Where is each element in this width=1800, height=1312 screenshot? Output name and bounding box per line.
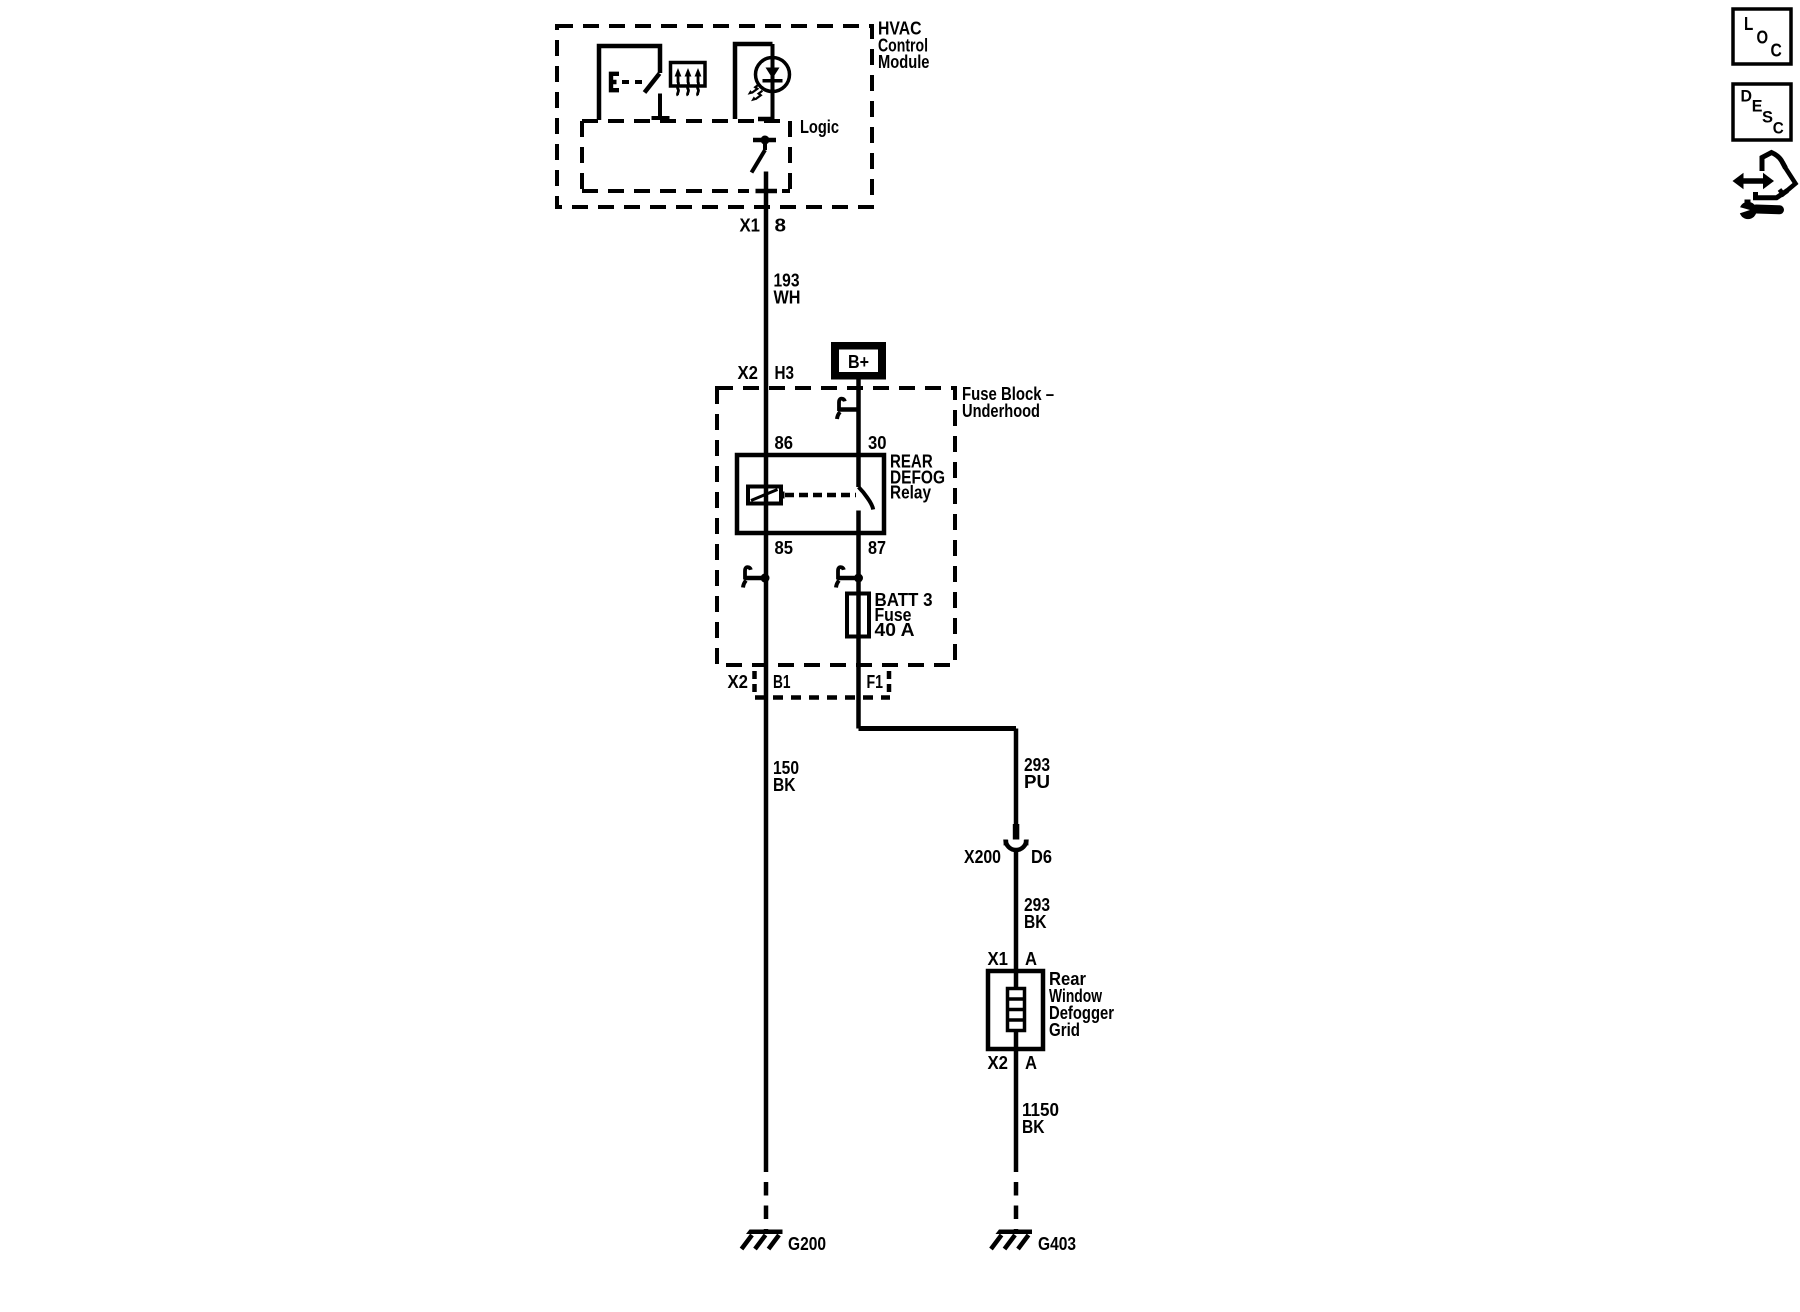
LED circle bbox=[756, 58, 790, 92]
ground G403 bbox=[991, 1230, 1032, 1250]
svg-text:O: O bbox=[1757, 28, 1769, 48]
svg-text:H3: H3 bbox=[775, 362, 795, 383]
svg-text:Grid: Grid bbox=[1049, 1019, 1080, 1040]
svg-text:87: 87 bbox=[868, 537, 886, 558]
defogger grid indicator icon box bbox=[671, 63, 706, 87]
svg-text:B1: B1 bbox=[773, 671, 791, 692]
svg-text:40 A: 40 A bbox=[875, 619, 915, 640]
LOC letters bbox=[1744, 14, 1782, 61]
svg-text:Logic: Logic bbox=[800, 116, 839, 137]
svg-text:C: C bbox=[1771, 41, 1782, 61]
svg-text:86: 86 bbox=[775, 432, 794, 453]
shortcut icon outline arrow tail bracket bbox=[1756, 191, 1788, 198]
DESC letters bbox=[1741, 86, 1784, 137]
LED cathode bar bbox=[763, 79, 783, 83]
grid element bbox=[1008, 989, 1025, 1031]
svg-text:X2: X2 bbox=[728, 671, 749, 692]
B+ battery feed symbol bbox=[831, 342, 886, 380]
connector bottom dashes bbox=[755, 695, 890, 700]
svg-text:Relay: Relay bbox=[890, 482, 932, 503]
svg-text:PU: PU bbox=[1024, 771, 1050, 792]
REAR DEFOG relay box bbox=[737, 455, 884, 533]
switch E contact bbox=[611, 72, 619, 93]
tap at 85 bbox=[743, 567, 766, 587]
svg-text:BK: BK bbox=[1024, 911, 1047, 932]
Rear Window Defogger Grid box bbox=[988, 971, 1043, 1049]
tap at 87 bbox=[836, 567, 859, 587]
svg-text:E: E bbox=[1752, 97, 1763, 116]
LED arrow 2 bbox=[751, 91, 762, 102]
LED diode triangle bbox=[766, 68, 780, 79]
svg-text:85: 85 bbox=[775, 537, 794, 558]
ground G200 bbox=[742, 1230, 783, 1250]
indicator LED box bbox=[735, 44, 773, 119]
wire 1150 BK bbox=[1014, 1049, 1019, 1172]
HVAC Control Module box bbox=[557, 26, 872, 207]
svg-text:Module: Module bbox=[878, 51, 930, 72]
fuse BATT 3 bbox=[847, 594, 869, 637]
shortcut icon outline arrow head bbox=[1780, 167, 1796, 195]
LED arrow 1 bbox=[748, 84, 759, 95]
svg-text:L: L bbox=[1744, 14, 1753, 34]
connector X200 male pin bbox=[1013, 824, 1020, 840]
defog request switch box bbox=[599, 46, 660, 120]
switch post T bar bbox=[652, 116, 670, 120]
logic switch contact dot bbox=[761, 136, 770, 145]
connector X200 female cup bbox=[1006, 840, 1027, 851]
wire 293 PU horizontal bbox=[859, 726, 1017, 731]
switch blade bbox=[645, 74, 660, 93]
svg-text:D: D bbox=[1741, 86, 1753, 105]
logic switch blade bbox=[752, 150, 766, 173]
svg-text:30: 30 bbox=[868, 432, 887, 453]
svg-text:G200: G200 bbox=[788, 1233, 826, 1254]
svg-text:S: S bbox=[1762, 107, 1773, 126]
wire 193 WH bbox=[764, 172, 769, 1173]
wire dashed to G403 bbox=[1014, 1182, 1019, 1230]
relay coil bbox=[748, 487, 781, 504]
grid icon arrow 3 bbox=[695, 68, 702, 96]
tick at logic box bottom bbox=[756, 189, 778, 194]
svg-text:X1: X1 bbox=[988, 948, 1009, 969]
tap junction dot 85 bbox=[761, 574, 770, 583]
LOC icon box bbox=[1733, 9, 1791, 64]
svg-text:Underhood: Underhood bbox=[962, 400, 1040, 421]
svg-text:D6: D6 bbox=[1031, 846, 1052, 867]
shortcut icon wrench head bbox=[1739, 202, 1756, 219]
DESC icon box bbox=[1733, 84, 1791, 140]
Logic box bbox=[582, 119, 790, 123]
svg-text:X2: X2 bbox=[988, 1052, 1009, 1073]
logic switch contact bar bbox=[753, 138, 776, 143]
logic switch stub bbox=[763, 140, 767, 150]
svg-text:G403: G403 bbox=[1038, 1233, 1076, 1254]
relay coil nub bbox=[781, 492, 785, 499]
grid icon arrow 1 bbox=[675, 68, 682, 96]
relay link dashes bbox=[785, 493, 856, 498]
connector right dash bbox=[887, 671, 892, 693]
svg-text:X200: X200 bbox=[964, 846, 1001, 867]
wire 293 PU vertical bbox=[1014, 729, 1019, 825]
shortcut icon double arrow bbox=[1733, 173, 1775, 190]
switch lower post bbox=[658, 94, 662, 119]
svg-text:F1: F1 bbox=[867, 671, 884, 692]
relay switch blade bbox=[859, 487, 874, 510]
wire through grid box bbox=[1014, 971, 1019, 1049]
relay coil slash bbox=[751, 490, 778, 501]
connector X2 B1 F1 left dash bbox=[752, 671, 757, 693]
svg-text:A: A bbox=[1025, 948, 1037, 969]
shortcut icon wrench handle bbox=[1756, 205, 1780, 215]
LED wire through circle bbox=[771, 44, 775, 119]
svg-text:X2: X2 bbox=[738, 362, 759, 383]
svg-text:X1: X1 bbox=[740, 215, 761, 236]
wire B+ to relay 30 bbox=[856, 380, 861, 488]
svg-text:BK: BK bbox=[1022, 1116, 1045, 1137]
Fuse Block Underhood box bbox=[717, 388, 955, 665]
tap junction dot 87 bbox=[854, 574, 863, 583]
grid icon arrow 2 bbox=[685, 68, 692, 96]
svg-text:8: 8 bbox=[775, 215, 787, 236]
svg-text:C: C bbox=[1773, 119, 1784, 138]
shortcut icon outline arrow top bbox=[1762, 153, 1786, 172]
wire dashed to G200 bbox=[764, 1182, 769, 1230]
tap at 30 instance bbox=[837, 399, 860, 419]
switch link dashes bbox=[622, 80, 646, 84]
svg-text:B+: B+ bbox=[848, 351, 869, 372]
svg-text:BK: BK bbox=[773, 774, 796, 795]
svg-text:WH: WH bbox=[774, 287, 801, 308]
relay 87 wire bbox=[856, 511, 861, 729]
svg-text:A: A bbox=[1025, 1052, 1037, 1073]
wire 293 BK bbox=[1014, 852, 1019, 971]
